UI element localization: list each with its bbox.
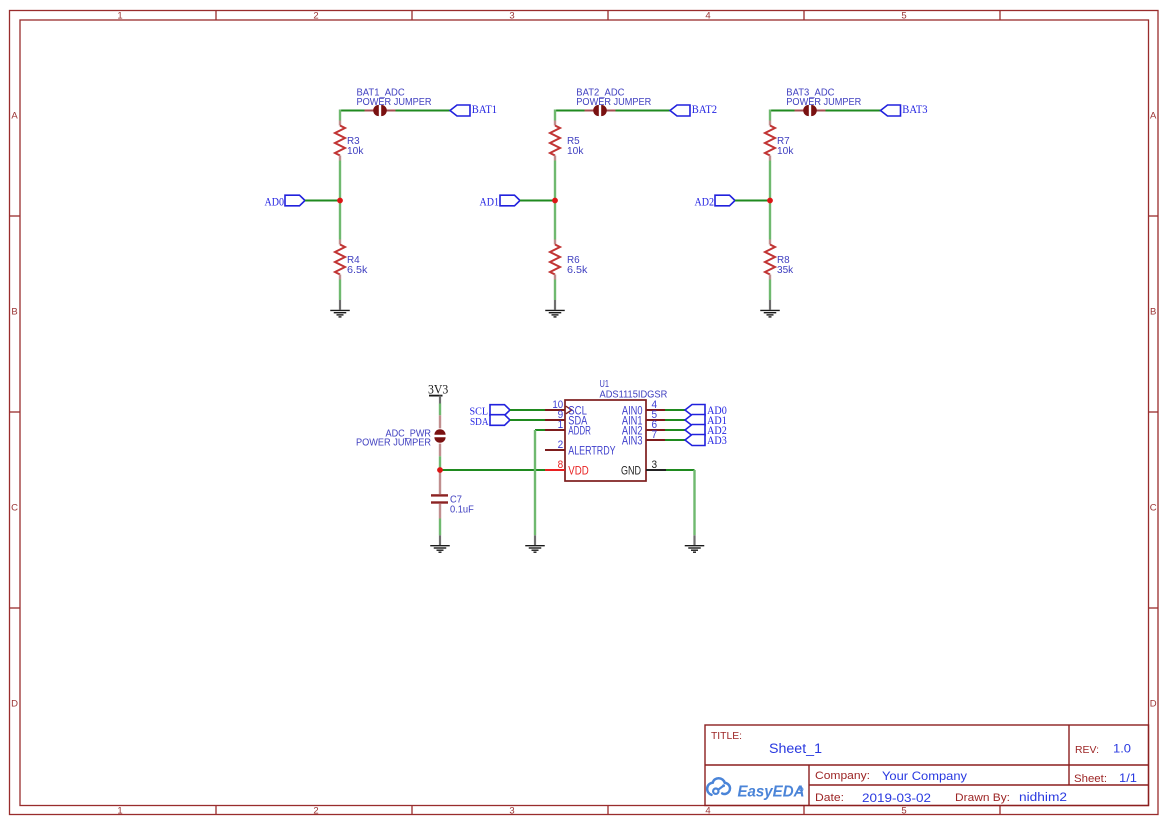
pin 10 SCL — [545, 399, 587, 417]
wire net BAT2 right segment — [616, 110, 671, 112]
label R7 10k — [777, 136, 794, 157]
svg-text:SDA: SDA — [470, 417, 489, 428]
wire — [439, 519, 441, 536]
svg-text:6.5k: 6.5k — [567, 265, 588, 276]
pin 3 GND — [621, 459, 666, 477]
svg-text:3V3: 3V3 — [428, 382, 448, 397]
svg-text:5: 5 — [901, 806, 906, 817]
port AD3 — [685, 433, 727, 447]
port SCL — [470, 405, 511, 418]
svg-text:3: 3 — [652, 459, 658, 471]
wire — [439, 456, 441, 470]
svg-text:POWER JUMPER: POWER JUMPER — [786, 97, 861, 108]
jumper ADC_PWR POWER JUMPER — [434, 415, 445, 456]
pin 5 AIN1 — [622, 409, 665, 427]
jumper BAT1_ADC POWER JUMPER — [365, 105, 396, 116]
wire AIN2 to AD2 — [665, 429, 685, 431]
wire SCL — [510, 409, 545, 411]
svg-text:AD2: AD2 — [695, 195, 715, 209]
ground — [330, 300, 350, 317]
svg-text:EasyEDA: EasyEDA — [738, 784, 805, 801]
resistor R3 — [335, 121, 345, 161]
label BAT2_ADC POWER JUMPER — [576, 88, 651, 108]
jumper BAT3_ADC POWER JUMPER — [795, 105, 826, 116]
resistor R6 — [550, 240, 560, 280]
resistor R5 — [550, 121, 560, 161]
wire — [339, 161, 341, 240]
ground — [430, 535, 450, 552]
svg-text:POWER JUMPER: POWER JUMPER — [576, 97, 651, 108]
EasyEDA logo — [707, 778, 804, 800]
svg-text:1: 1 — [558, 419, 564, 431]
svg-text:6.5k: 6.5k — [347, 265, 368, 276]
wire — [554, 280, 556, 301]
wire — [769, 110, 771, 121]
label R6 6.5k — [567, 255, 588, 276]
svg-text:POWER JUMPER: POWER JUMPER — [356, 437, 431, 448]
label BAT1_ADC POWER JUMPER — [357, 88, 432, 108]
svg-text:BAT3: BAT3 — [902, 102, 927, 116]
wire — [439, 404, 441, 416]
label R4 6.5k — [347, 255, 368, 276]
pin 7 AIN3 — [622, 429, 665, 447]
port BAT2 — [670, 102, 717, 116]
title block — [705, 725, 1149, 806]
svg-text:Drawn By:: Drawn By: — [955, 792, 1010, 804]
wire — [769, 280, 771, 301]
svg-text:0.1uF: 0.1uF — [450, 505, 474, 516]
svg-text:Date:: Date: — [815, 792, 844, 804]
svg-text:1: 1 — [117, 806, 122, 817]
ground — [760, 300, 780, 317]
svg-text:35k: 35k — [777, 265, 794, 276]
svg-text:VDD: VDD — [568, 465, 588, 477]
label R3 10k — [347, 136, 364, 157]
svg-text:ADS1115IDGSR: ADS1115IDGSR — [600, 389, 668, 400]
svg-text:TITLE:: TITLE: — [711, 731, 742, 742]
svg-text:1.0: 1.0 — [1113, 742, 1131, 756]
wire — [339, 110, 341, 121]
svg-text:Sheet_1: Sheet_1 — [769, 741, 822, 756]
resistor R8 — [765, 240, 775, 280]
pin 1 ADDR — [545, 419, 591, 437]
junction node AD2 — [767, 198, 773, 204]
wire VDD rail — [440, 469, 545, 471]
svg-text:5: 5 — [901, 10, 906, 21]
wire net BAT1 left segment — [340, 110, 365, 112]
svg-text:C: C — [1150, 503, 1157, 514]
wire — [769, 161, 771, 240]
svg-text:4: 4 — [705, 10, 710, 21]
svg-text:Sheet:: Sheet: — [1074, 773, 1107, 785]
svg-text:BAT2: BAT2 — [692, 102, 717, 116]
svg-text:GND: GND — [621, 465, 641, 477]
label R8 35k — [777, 255, 794, 276]
svg-text:C: C — [11, 503, 18, 514]
svg-text:Your Company: Your Company — [882, 769, 968, 783]
port BAT3 — [881, 102, 928, 116]
wire SDA — [510, 419, 545, 421]
svg-text:2: 2 — [313, 806, 318, 817]
svg-text:B: B — [1150, 307, 1156, 318]
capacitor C7 — [431, 470, 448, 519]
port AD2 — [685, 423, 727, 437]
label ADC_PWR POWER JUMPER — [356, 429, 431, 449]
svg-text:POWER JUMPER: POWER JUMPER — [357, 97, 432, 108]
junction node VDD — [437, 467, 443, 473]
svg-text:3: 3 — [509, 10, 514, 21]
svg-text:D: D — [11, 699, 18, 710]
ground — [525, 535, 545, 552]
port SDA — [470, 415, 510, 428]
resistor R7 — [765, 121, 775, 161]
wire — [339, 280, 341, 301]
svg-text:10k: 10k — [567, 146, 584, 157]
wire ADDR to ground — [535, 430, 545, 535]
svg-text:2019-03-02: 2019-03-02 — [862, 791, 931, 805]
IC U1 ADS1115IDGSR body — [565, 400, 646, 481]
svg-text:2: 2 — [558, 439, 564, 451]
port AD0 — [265, 195, 306, 209]
svg-text:D: D — [1150, 699, 1157, 710]
power flag 3V3 — [428, 382, 448, 404]
label C7 0.1uF — [450, 495, 474, 516]
wire — [554, 110, 556, 121]
port AD2 — [695, 195, 736, 209]
svg-text:U1: U1 — [600, 379, 610, 390]
port AD1 — [685, 413, 727, 427]
svg-text:7: 7 — [652, 429, 658, 441]
svg-text:1/1: 1/1 — [1119, 771, 1137, 785]
label BAT3_ADC POWER JUMPER — [786, 88, 861, 108]
port AD0 — [685, 403, 727, 417]
svg-text:10k: 10k — [347, 146, 364, 157]
svg-text:ALERTRDY: ALERTRDY — [568, 445, 616, 457]
svg-text:A: A — [11, 111, 18, 122]
svg-text:Company:: Company: — [815, 770, 870, 782]
port BAT1 — [450, 102, 497, 116]
svg-text:nidhim2: nidhim2 — [1019, 790, 1067, 804]
wire net BAT3 right segment — [826, 110, 881, 112]
svg-text:2: 2 — [313, 10, 318, 21]
svg-text:BAT1: BAT1 — [472, 102, 497, 116]
wire AIN1 to AD1 — [665, 419, 685, 421]
wire net BAT1 right segment — [396, 110, 451, 112]
resistor R4 — [335, 240, 345, 280]
ground — [685, 535, 705, 552]
svg-text:AD3: AD3 — [707, 433, 727, 447]
wire net BAT2 left segment — [555, 110, 585, 112]
junction node AD1 — [552, 198, 558, 204]
svg-text:3: 3 — [509, 806, 514, 817]
svg-text:1: 1 — [117, 10, 122, 21]
pin 8 VDD — [545, 459, 589, 477]
wire AD1 to junction — [520, 200, 555, 202]
ground — [545, 300, 565, 317]
svg-text:AD1: AD1 — [480, 195, 500, 209]
svg-text:AIN3: AIN3 — [622, 435, 643, 447]
label U1 ADS1115IDGSR — [600, 379, 668, 400]
svg-text:AD0: AD0 — [265, 195, 285, 209]
pin 4 AIN0 — [622, 399, 665, 417]
wire GND net — [666, 470, 695, 535]
label R5 10k — [567, 136, 584, 157]
svg-text:4: 4 — [705, 806, 710, 817]
wire AD0 to junction — [305, 200, 340, 202]
wire AD2 to junction — [735, 200, 770, 202]
jumper BAT2_ADC POWER JUMPER — [585, 105, 616, 116]
wire net BAT3 left segment — [770, 110, 795, 112]
pin 9 SDA — [545, 409, 588, 427]
svg-text:10k: 10k — [777, 146, 794, 157]
pin 2 ALERTRDY — [545, 439, 616, 457]
port AD1 — [480, 195, 521, 209]
svg-text:REV:: REV: — [1075, 744, 1099, 756]
svg-text:B: B — [11, 307, 17, 318]
junction node AD0 — [337, 198, 343, 204]
svg-text:A: A — [1150, 111, 1157, 122]
wire AIN0 to AD0 — [665, 409, 685, 411]
pin 6 AIN2 — [622, 419, 665, 437]
svg-text:8: 8 — [558, 459, 564, 471]
wire AIN3 to AD3 — [665, 439, 685, 441]
svg-text:ADDR: ADDR — [568, 425, 591, 437]
wire — [554, 161, 556, 240]
